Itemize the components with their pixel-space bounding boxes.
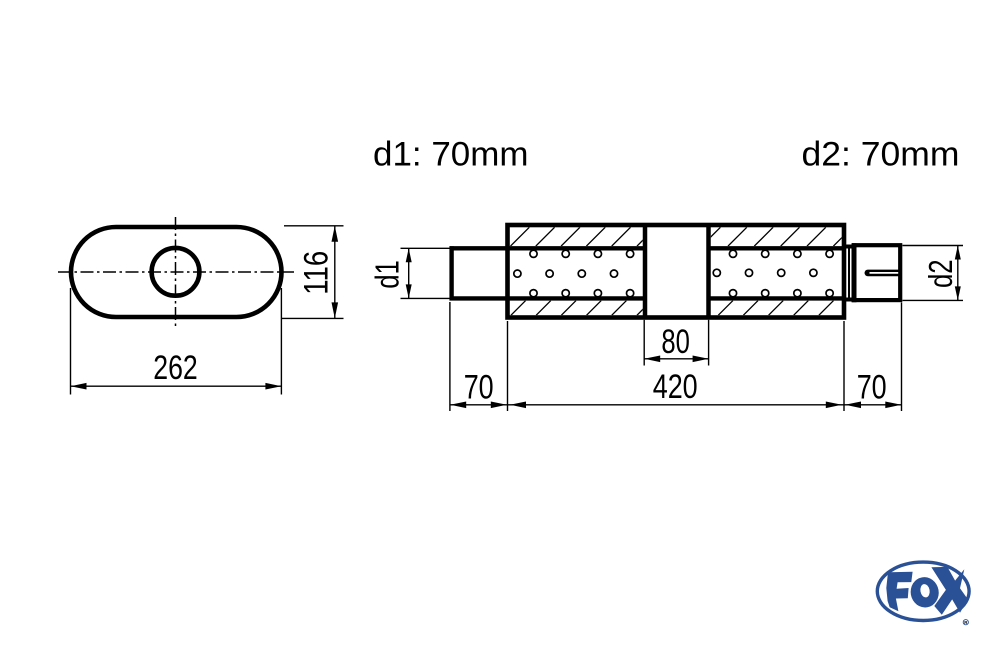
dim 80 extension lines [644,320,708,366]
inner pipe hole circle [152,248,200,296]
dim 116 dimension line [334,226,336,319]
inlet pipe [450,246,510,300]
muffler body outline [508,225,845,318]
svg-text:420: 420 [653,368,698,406]
svg-text:262: 262 [153,349,198,387]
chamber wall right [706,225,711,318]
inner perforated tube walls [508,248,845,298]
svg-text:d1: 70mm: d1: 70mm [373,136,529,174]
vertical center line [175,217,177,328]
bottom dims extension lines [450,302,902,411]
outlet pipe stub [844,247,856,300]
svg-text:70: 70 [464,369,494,407]
horizontal center line [58,271,294,273]
outlet pipe end edge [848,247,850,300]
sleeve left wall (thick) [852,243,857,302]
FOX logo letter X right chevron [947,569,968,613]
clamp sleeve outline [854,245,900,300]
FOX logo letter F [886,572,912,611]
dim 262 extension lines [71,288,282,395]
dim d1 extension lines [401,248,450,298]
dim d2 dimension line [957,246,959,301]
dim 116 extension lines [282,226,344,319]
svg-text:70: 70 [857,369,887,407]
svg-text:d2: 70mm: d2: 70mm [802,136,960,174]
svg-text:d1: d1 [368,260,405,289]
dim d1 dimension line [408,248,410,298]
registered trademark symbol [963,620,968,625]
bottom dimension line [450,404,902,406]
FOX logo ellipse ring [877,562,969,620]
oval cross-section outline [71,227,282,317]
dim 80 dimension line [644,358,708,360]
dim 262 dimension line [71,385,282,387]
perforation holes [514,250,833,297]
dim d2 extension lines [903,246,964,301]
svg-text:80: 80 [661,323,690,361]
clamp slot [865,270,903,277]
svg-text:d2: d2 [922,259,959,288]
chamber wall left [643,225,648,318]
FOX logo letter X left chevron [931,567,959,615]
svg-text:116: 116 [298,251,336,295]
FOX logo letter O [908,575,941,610]
